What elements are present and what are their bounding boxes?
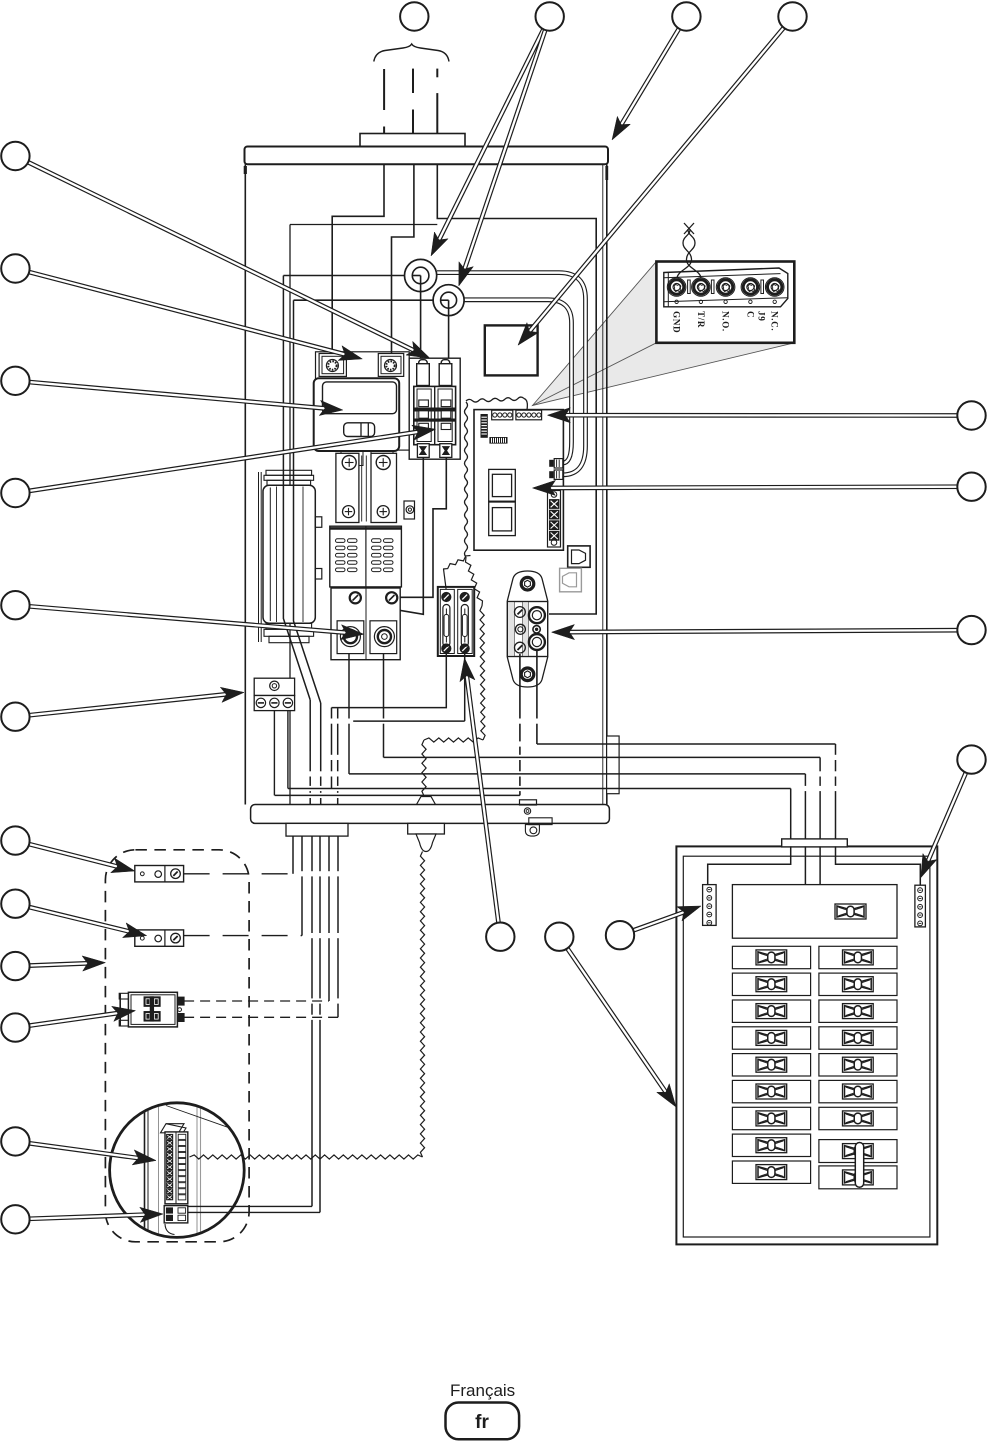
svg-text:J9: J9 <box>757 311 767 321</box>
svg-text:N.O.: N.O. <box>721 311 731 332</box>
svg-text:Français: Français <box>450 1381 515 1400</box>
svg-text:GND: GND <box>672 311 682 333</box>
svg-text:C: C <box>745 311 755 318</box>
svg-text:T/R: T/R <box>696 311 706 328</box>
svg-text:N.C.: N.C. <box>770 311 780 331</box>
svg-text:fr: fr <box>475 1412 489 1433</box>
